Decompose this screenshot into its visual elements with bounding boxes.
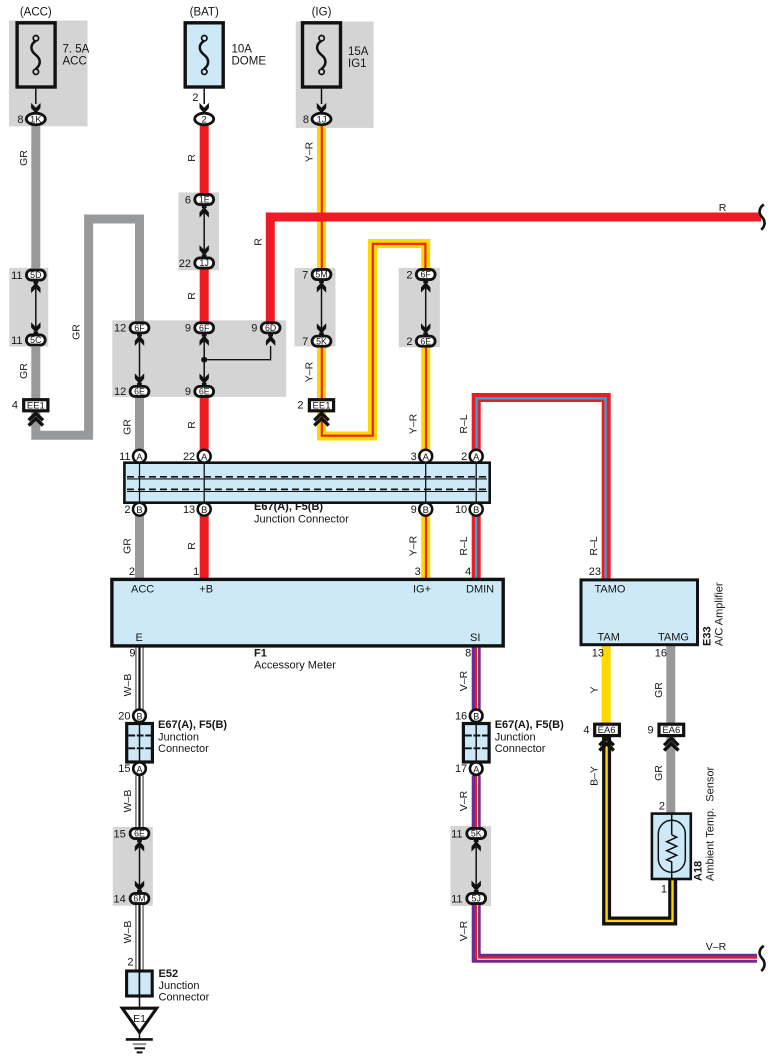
svg-text:Connector: Connector (158, 743, 209, 755)
svg-text:EE1: EE1 (27, 400, 45, 411)
connector oval pair 6F/6E (12) with arrows (130, 323, 149, 397)
svg-text:11: 11 (11, 270, 22, 282)
svg-text:Y–R: Y–R (408, 413, 420, 434)
svg-text:Y–R: Y–R (304, 141, 316, 162)
svg-text:10A: 10A (232, 44, 253, 56)
svg-text:23: 23 (589, 566, 601, 578)
svg-text:R: R (186, 421, 198, 429)
connector oval pair 6E/6M with arrows (130, 828, 149, 903)
shade behind 6E/6M pair (113, 827, 153, 906)
svg-text:IG+: IG+ (413, 584, 431, 596)
wire R-L junction 10B to F1 DMIN (472, 515, 481, 580)
svg-text:12: 12 (114, 386, 126, 398)
junction pin 15A (left grid) (133, 762, 146, 775)
svg-text:9: 9 (185, 386, 191, 398)
wire B-Y EA6(4) loop to A18 pin1 (607, 737, 673, 921)
link arrows 6F-6E (9) (203, 340, 205, 379)
svg-text:6F: 6F (199, 323, 210, 333)
svg-text:A18: A18 (693, 861, 705, 881)
arrow into 2 (200, 103, 209, 116)
wire W-B 15A to 6E (137, 776, 141, 828)
link fuse ACC to arrow (35, 74, 37, 104)
svg-text:R: R (186, 292, 198, 300)
connector oval pair 6F/6E (9) with arrows (195, 323, 214, 397)
wire Y-R 6E(2col) to junction 3A (421, 348, 430, 452)
node junction dot (201, 357, 207, 363)
chevron below EE1 (4) (29, 413, 43, 425)
junction pin 20B (left grid) (133, 710, 146, 723)
svg-text:(BAT): (BAT) (190, 7, 219, 19)
svg-text:DOME: DOME (232, 56, 267, 68)
connector oval 1K (26, 113, 45, 125)
break symbol R wire right edge (760, 205, 765, 230)
junction pin 9B (419, 503, 432, 516)
svg-text:E67(A), F5(B): E67(A), F5(B) (158, 719, 227, 731)
svg-text:R: R (186, 542, 198, 550)
svg-text:8: 8 (465, 648, 471, 660)
shade behind 5M/5K pair (295, 268, 336, 347)
svg-text:E67(A), F5(B): E67(A), F5(B) (254, 501, 323, 513)
svg-text:EA6: EA6 (598, 725, 616, 736)
svg-text:Junction: Junction (495, 732, 536, 744)
svg-text:A/C Amplifier: A/C Amplifier (714, 582, 726, 646)
branch line node to 6D (204, 346, 270, 360)
junction pin 10B (470, 503, 483, 516)
svg-text:6D: 6D (265, 323, 276, 333)
svg-text:3: 3 (415, 566, 421, 578)
wire Y-R junction 9B to F1 IG+ (421, 515, 430, 580)
svg-text:B: B (473, 712, 479, 722)
junction pin 16B (right grid) (470, 710, 483, 723)
svg-text:E1: E1 (133, 1013, 146, 1025)
svg-text:1E: 1E (199, 195, 210, 205)
svg-text:A: A (423, 452, 430, 462)
svg-text:B: B (473, 505, 479, 515)
shade behind 1E/1J pair (178, 192, 219, 270)
svg-text:15: 15 (118, 763, 130, 775)
svg-text:GR: GR (122, 538, 134, 554)
connector EE1 (4) (24, 400, 48, 412)
svg-text:R: R (252, 238, 264, 246)
svg-text:+B: +B (199, 584, 213, 596)
connector oval 6D with arrow (261, 323, 280, 346)
wire GR junction 2B to F1 ACC (135, 515, 144, 580)
junction connector bar E67(A) F5(B) (124, 463, 489, 503)
svg-text:B: B (423, 505, 429, 515)
svg-text:Junction: Junction (158, 732, 199, 744)
svg-text:W–B: W–B (122, 921, 134, 944)
link E52 to E1 triangle (139, 997, 141, 1009)
junction connector grid box right (E67/F5) (463, 724, 489, 763)
svg-text:2: 2 (659, 801, 665, 813)
svg-text:6E: 6E (134, 829, 145, 839)
link E1 triangle to ground (139, 1032, 141, 1041)
wire V-R 5J to right edge (476, 905, 757, 960)
svg-text:SI: SI (470, 632, 480, 644)
svg-text:12: 12 (114, 323, 126, 335)
junction pin 2B (133, 503, 146, 516)
break symbol V-R wire right edge (760, 946, 765, 971)
svg-text:6F: 6F (134, 323, 145, 333)
wire V-R F1 SI to 16B (476, 646, 478, 711)
junction pin 3A (419, 450, 432, 463)
link arrows 5M-5K (321, 287, 323, 328)
fuse BAT 10A DOME (185, 23, 223, 87)
svg-text:1J: 1J (316, 114, 326, 125)
wire R main horizontal to 6D (270, 217, 761, 322)
svg-text:DMIN: DMIN (466, 584, 494, 596)
svg-text:6E: 6E (199, 387, 210, 397)
svg-text:4: 4 (465, 566, 471, 578)
svg-text:2: 2 (461, 451, 467, 463)
svg-text:5K: 5K (316, 336, 327, 346)
svg-text:2: 2 (406, 336, 412, 348)
connector oval pair 5M/5K with arrows (312, 269, 331, 346)
svg-text:7. 5A: 7. 5A (63, 44, 90, 56)
svg-text:GR: GR (71, 324, 83, 340)
connector oval 1J (312, 113, 331, 125)
svg-text:E: E (136, 632, 143, 644)
svg-text:GR: GR (122, 419, 134, 435)
svg-text:9: 9 (411, 504, 417, 516)
svg-text:5J: 5J (472, 894, 481, 904)
svg-text:B–Y: B–Y (589, 766, 601, 786)
svg-text:F1: F1 (254, 648, 267, 660)
svg-text:13: 13 (592, 648, 604, 660)
svg-text:GR: GR (18, 150, 30, 166)
svg-text:(ACC): (ACC) (20, 7, 52, 19)
svg-text:A: A (136, 452, 143, 462)
svg-text:1K: 1K (30, 114, 42, 125)
svg-text:B: B (201, 505, 207, 515)
connector oval 2 (195, 113, 214, 125)
svg-text:R–L: R–L (458, 414, 470, 433)
shade behind 5K/5J pair (451, 826, 492, 906)
wire Y-R loop EE1(2) to 6F(2col) (322, 244, 426, 437)
svg-text:Y: Y (589, 686, 601, 693)
svg-text:ACC: ACC (131, 584, 154, 596)
svg-text:TAMO: TAMO (595, 584, 626, 596)
svg-text:Ambient Temp. Sensor: Ambient Temp. Sensor (705, 767, 717, 881)
svg-text:V–R: V–R (706, 941, 727, 953)
svg-text:8: 8 (17, 114, 23, 126)
svg-text:TAMG: TAMG (658, 632, 689, 644)
wire R 6E(9) to junction 22A (200, 398, 209, 452)
fuse IG 15A IG1 (303, 23, 341, 87)
svg-text:EA6: EA6 (662, 725, 680, 736)
connector oval pair 6F/6E (2col) with arrows (416, 269, 435, 346)
svg-text:Connector: Connector (495, 743, 546, 755)
junction pin 2A (470, 450, 483, 463)
connector oval pair 1E/1J with arrows (195, 194, 214, 268)
svg-text:5K: 5K (471, 829, 482, 839)
svg-text:2: 2 (192, 92, 198, 104)
svg-text:6E: 6E (420, 336, 431, 346)
wire Y E33 TAM to EA6(4) (602, 645, 611, 723)
wire GR EA6(9) to A18 pin2 (666, 737, 675, 814)
connector EE1 (2) (309, 400, 333, 412)
svg-text:V–R: V–R (458, 920, 470, 941)
wire V-R 17A to 5K (476, 776, 478, 828)
svg-text:16: 16 (655, 648, 667, 660)
svg-text:Junction Connector: Junction Connector (254, 514, 349, 526)
junction pin 22A (198, 450, 211, 463)
svg-text:2: 2 (297, 400, 303, 412)
svg-text:9: 9 (185, 323, 191, 335)
svg-text:R: R (186, 154, 198, 162)
svg-text:GR: GR (18, 363, 30, 379)
junction connector grid box left (E67/F5) (127, 724, 153, 763)
link arrows 6E-6M (bottom) (139, 846, 141, 886)
svg-text:1J: 1J (200, 258, 209, 268)
svg-text:15A: 15A (348, 46, 369, 58)
wire GR loop EE1 to 6F(12) (36, 219, 140, 435)
svg-text:4: 4 (12, 400, 18, 412)
link arrows 6F-6E (2col) (425, 287, 427, 328)
svg-text:16: 16 (455, 710, 467, 722)
junction pin 17A (right grid) (470, 762, 483, 775)
svg-text:E67(A), F5(B): E67(A), F5(B) (495, 719, 564, 731)
svg-text:2: 2 (127, 957, 133, 969)
svg-text:Y–R: Y–R (304, 361, 316, 382)
svg-text:6E: 6E (134, 387, 145, 397)
svg-text:3: 3 (411, 451, 417, 463)
svg-text:A: A (136, 764, 142, 774)
svg-text:IG1: IG1 (348, 58, 367, 70)
svg-text:(IG): (IG) (312, 7, 332, 19)
wire Y-R 5K to EE1(2) (317, 348, 326, 400)
svg-text:9: 9 (129, 648, 135, 660)
link arrows 6F-6E (12) (139, 340, 141, 379)
svg-text:6: 6 (185, 194, 191, 206)
svg-text:2: 2 (129, 566, 135, 578)
wire R fuse BAT to 1E (200, 126, 209, 195)
shade behind IG fuse (296, 22, 374, 128)
svg-text:22: 22 (179, 258, 191, 270)
svg-text:1: 1 (661, 884, 667, 896)
svg-text:17: 17 (455, 763, 467, 775)
svg-text:W–B: W–B (122, 790, 134, 813)
shade behind 6F/6E/6D group (112, 320, 286, 397)
svg-text:Junction: Junction (159, 980, 200, 992)
svg-text:9: 9 (251, 323, 257, 335)
svg-text:E52: E52 (159, 968, 179, 980)
svg-text:7: 7 (302, 336, 308, 348)
link arrows 5D-5C (35, 288, 37, 327)
svg-text:Y–R: Y–R (408, 535, 420, 556)
junction pin 13B (198, 503, 211, 516)
link fuse IG to arrow (321, 74, 323, 104)
A18 ambient temp sensor box (652, 814, 691, 879)
svg-text:R–L: R–L (458, 536, 470, 555)
link fuse BAT to arrow (203, 74, 205, 104)
shade behind ACC fuse (9, 21, 88, 127)
svg-text:5D: 5D (30, 270, 41, 280)
wire R junction 13B to F1 +B (200, 515, 209, 580)
shade behind 5D/5C pair (9, 268, 48, 347)
arrow into 1K (31, 103, 40, 116)
link arrows 5K-5J (bottom) (475, 846, 477, 886)
svg-text:ACC: ACC (63, 56, 87, 68)
F1 Accessory Meter box (112, 579, 503, 646)
svg-text:A: A (473, 452, 480, 462)
svg-text:6M: 6M (133, 894, 145, 904)
ground symbol (126, 1039, 153, 1052)
svg-text:22: 22 (183, 451, 195, 463)
svg-text:B: B (136, 505, 142, 515)
svg-text:Connector: Connector (159, 992, 210, 1004)
svg-text:11: 11 (119, 451, 130, 463)
svg-text:4: 4 (583, 724, 589, 736)
svg-text:5C: 5C (30, 335, 42, 345)
wire GR 5C to EE1 (31, 347, 40, 399)
svg-text:W–B: W–B (122, 674, 134, 697)
svg-text:14: 14 (114, 893, 126, 905)
svg-text:8: 8 (303, 114, 309, 126)
chevron below EA6 (4) (599, 738, 613, 750)
svg-text:15: 15 (114, 828, 126, 840)
fuse ACC 7.5A (17, 23, 55, 87)
E52 junction connector box (127, 971, 153, 996)
svg-text:20: 20 (118, 710, 130, 722)
svg-text:9: 9 (647, 724, 653, 736)
wire GR E33 TAMG to EA6(9) (666, 645, 675, 723)
ground E1 triangle (122, 1008, 156, 1032)
junction pin 11A (133, 450, 146, 463)
chevron below EA6 (9) (664, 738, 678, 750)
svg-text:6F: 6F (421, 270, 432, 280)
svg-text:5M: 5M (315, 270, 327, 280)
arrow into 1J (317, 103, 326, 116)
svg-text:A: A (201, 452, 208, 462)
connector oval pair 5K/5J with arrows (467, 828, 486, 903)
svg-text:R–L: R–L (588, 536, 600, 555)
E33 A/C Amplifier box (581, 580, 698, 645)
svg-text:7: 7 (302, 269, 308, 281)
svg-text:E33: E33 (702, 626, 714, 646)
svg-text:11: 11 (451, 893, 462, 905)
svg-text:11: 11 (451, 828, 462, 840)
connector EA6 (9) (659, 724, 684, 736)
link arrows 1E-1J (203, 212, 205, 250)
svg-text:1: 1 (193, 566, 199, 578)
svg-text:B: B (136, 712, 142, 722)
svg-text:V–R: V–R (458, 670, 470, 691)
wire Y-R fuse IG to 5M (317, 126, 326, 269)
svg-text:GR: GR (653, 765, 665, 781)
svg-text:V–R: V–R (458, 790, 470, 811)
svg-text:A: A (473, 764, 479, 774)
svg-text:2: 2 (406, 269, 412, 281)
svg-text:EE1: EE1 (313, 400, 331, 411)
svg-text:GR: GR (653, 682, 665, 698)
svg-text:Accessory Meter: Accessory Meter (254, 660, 336, 672)
svg-text:2: 2 (202, 114, 207, 125)
svg-text:TAM: TAM (598, 632, 620, 644)
svg-text:10: 10 (455, 504, 467, 516)
svg-text:R: R (719, 202, 727, 214)
wire R-L junction 2A loop to E33 TAMO (476, 398, 606, 581)
shade behind 6F/6E (2) pair (399, 268, 440, 347)
svg-text:2: 2 (124, 504, 130, 516)
svg-text:11: 11 (11, 335, 22, 347)
wire GR fuse ACC to 5D (31, 126, 40, 269)
wire R 1J to 6F(9) (200, 269, 209, 323)
svg-text:13: 13 (183, 504, 195, 516)
connector EA6 (4) (595, 724, 620, 736)
connector oval pair 5D/5C with arrows (26, 270, 45, 345)
wire W-B F1 E to 20B (137, 646, 141, 711)
chevron below EE1 (2) (314, 413, 328, 425)
wire GR 6E(12) to junction 11A (135, 398, 144, 452)
wire W-B 6M to E52 (137, 905, 141, 971)
